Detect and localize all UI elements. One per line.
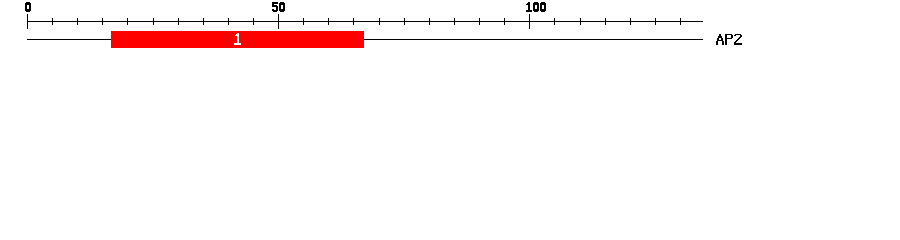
minor tick at 203	[203, 18, 204, 25]
minor tick at 303	[303, 18, 304, 25]
minor tick at 504	[504, 18, 505, 25]
minor tick at 353	[353, 18, 354, 25]
minor tick at 52	[52, 18, 53, 25]
domain name label "AP2"	[716, 34, 742, 45]
ruler axis line	[27, 21, 703, 22]
minor tick at 605	[605, 18, 606, 25]
minor tick at 178	[178, 18, 179, 25]
ruler label "100"	[526, 2, 546, 12]
minor tick at 454	[454, 18, 455, 25]
ruler label "0"	[25, 2, 31, 12]
minor tick at 253	[253, 18, 254, 25]
minor tick at 379	[379, 18, 380, 25]
background	[0, 0, 900, 58]
minor tick at 554	[554, 18, 555, 25]
domain copy number "1" (white)	[234, 33, 241, 45]
minor tick at 328	[328, 18, 329, 25]
AP2 domain bar (red)	[111, 31, 364, 48]
minor tick at 655	[655, 18, 656, 25]
minor tick at 127	[127, 18, 128, 25]
major tick at 278	[278, 14, 279, 29]
minor tick at 630	[630, 18, 631, 25]
ruler label "50"	[272, 2, 285, 12]
minor tick at 429	[429, 18, 430, 25]
minor tick at 102	[102, 18, 103, 25]
minor tick at 77	[77, 18, 78, 25]
minor tick at 153	[153, 18, 154, 25]
major tick at 529	[529, 14, 530, 29]
minor tick at 404	[404, 18, 405, 25]
minor tick at 680	[680, 18, 681, 25]
minor tick at 479	[479, 18, 480, 25]
protein sequence line	[27, 39, 703, 40]
major tick at 27	[27, 14, 28, 29]
minor tick at 228	[228, 18, 229, 25]
minor tick at 580	[580, 18, 581, 25]
